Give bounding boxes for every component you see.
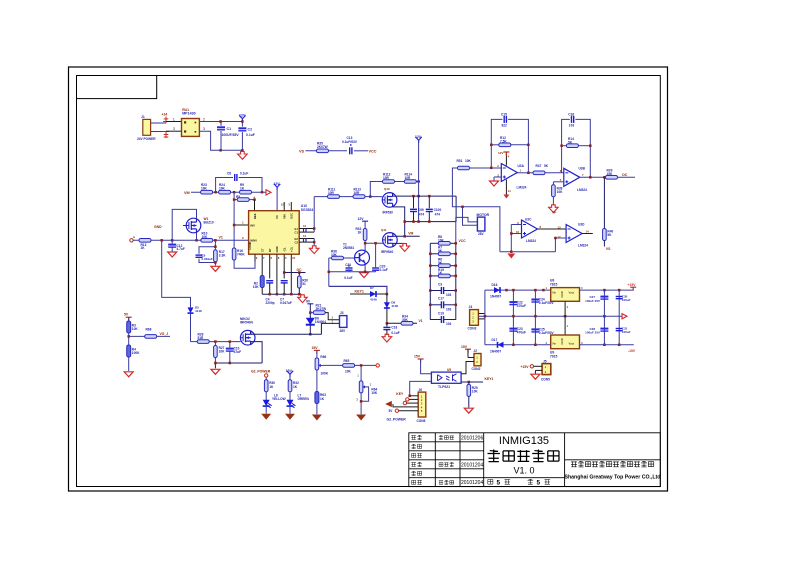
- svg-text:1K: 1K: [240, 186, 245, 190]
- wire terminals to U1: [166, 122, 182, 132]
- resistor R17 3.3K: [214, 250, 218, 262]
- svg-text:GND: GND: [275, 246, 279, 252]
- svg-text:J1: J1: [141, 115, 145, 119]
- LED L6 yellow: [263, 400, 272, 408]
- svg-text:GREEN: GREEN: [298, 397, 310, 401]
- svg-text:J4: J4: [469, 305, 473, 309]
- svg-text:15: 15: [281, 203, 285, 207]
- R36 left node vertical: [329, 258, 332, 286]
- resistor R38 10K: [552, 185, 556, 197]
- svg-text:C16: C16: [568, 112, 574, 116]
- table label row 5: [411, 471, 421, 476]
- svg-text:U5: U5: [447, 368, 451, 372]
- svg-text:REF: REF: [253, 213, 257, 219]
- resistor R30 1K: [264, 380, 268, 392]
- svg-text:14: 14: [586, 229, 590, 233]
- svg-text:C100: C100: [434, 208, 442, 212]
- svg-text:7.5K: 7.5K: [500, 139, 507, 143]
- mosfet Q10 IRF530: [382, 193, 397, 208]
- svg-text:0.1uF: 0.1uF: [240, 172, 248, 176]
- junction A: [214, 191, 217, 194]
- cap C24 0.1uF/50V: [534, 290, 536, 316]
- designer name row1: [439, 435, 454, 439]
- pin3 wire + ground: [494, 177, 501, 181]
- svg-text:MOTOR: MOTOR: [477, 213, 490, 217]
- drain wire right to J3 column: [251, 331, 322, 334]
- cap C27 100uF/25V: [603, 290, 605, 316]
- svg-text:10K: 10K: [132, 327, 139, 331]
- wire from motor sense up to R51: [452, 168, 500, 252]
- capacitor C100 474: [428, 196, 430, 208]
- svg-text:5K: 5K: [438, 249, 443, 253]
- ground under R63: [312, 415, 322, 421]
- svg-text:10K: 10K: [331, 253, 338, 257]
- svg-text:10K: 10K: [557, 190, 564, 194]
- bottom rail: [215, 363, 262, 368]
- T1 collector wire: [364, 243, 366, 250]
- svg-text:MP1430: MP1430: [182, 112, 195, 116]
- table label row 2: [411, 444, 421, 449]
- svg-text:+24: +24: [162, 113, 168, 117]
- svg-text:0.1uF: 0.1uF: [344, 276, 352, 280]
- op-amp U3B LM324: [564, 168, 580, 186]
- svg-text:1K: 1K: [141, 246, 146, 250]
- svg-text:CON2: CON2: [472, 367, 481, 371]
- wire R51 to pin2: [470, 167, 502, 169]
- approver name row6: [439, 480, 454, 484]
- inner border frame: [77, 76, 661, 487]
- terminal A input: [130, 239, 133, 242]
- svg-text:12: 12: [303, 224, 307, 228]
- terminal +: [163, 117, 169, 124]
- svg-text:-CL: -CL: [282, 247, 286, 252]
- svg-text:1N4004: 1N4004: [315, 320, 326, 324]
- svg-text:GND: GND: [560, 338, 564, 344]
- svg-text:R66: R66: [320, 355, 326, 359]
- 12V power bar: [239, 114, 246, 122]
- right pins 12 13 wires: [299, 229, 314, 243]
- top stubs pins: [283, 202, 285, 211]
- svg-text:+CL: +CL: [289, 246, 293, 252]
- wire to V1 with R34: [387, 322, 417, 324]
- wire VM row: [191, 191, 266, 193]
- capacitor C16 103: [572, 116, 574, 123]
- C9 - R17 network: [199, 240, 215, 262]
- output to U3D: [538, 228, 567, 230]
- resistor R29 10K: [468, 382, 470, 385]
- svg-text:10R: 10R: [383, 176, 390, 180]
- svg-text:9V: 9V: [306, 300, 311, 304]
- gate wire to Q11: [365, 242, 383, 244]
- resistor R9 1K: [240, 190, 252, 194]
- svg-text:GND: GND: [154, 225, 162, 229]
- svg-text:47uF: 47uF: [234, 350, 241, 354]
- svg-text:5K: 5K: [544, 164, 549, 168]
- resistor R27 10K: [214, 342, 216, 346]
- svg-text:7815: 7815: [550, 282, 558, 286]
- svg-text:10K: 10K: [201, 186, 208, 190]
- svg-text:0.1uF: 0.1uF: [380, 268, 388, 272]
- cap C23 470uF: [512, 316, 514, 345]
- pin4 wire to arrow: [393, 404, 418, 407]
- svg-text:Vout: Vout: [569, 342, 575, 346]
- ground under pot: [356, 415, 366, 421]
- capacitor C13 0.1uF/63V: [350, 147, 352, 154]
- title 送丝电路图: [488, 450, 559, 462]
- svg-text:IRF9540: IRF9540: [381, 250, 393, 254]
- svg-text:+15V: +15V: [628, 283, 637, 287]
- lower rail y=221.6: [405, 196, 456, 236]
- svg-text:U3D: U3D: [578, 222, 585, 226]
- resistor R24 10K: [219, 190, 231, 194]
- resistor R28 51R: [197, 340, 209, 344]
- svg-text:D16: D16: [492, 283, 498, 287]
- svg-text:1: 1: [173, 117, 175, 121]
- connector CON2: [474, 354, 481, 366]
- svg-text:VM: VM: [184, 191, 190, 195]
- svg-text:G2_POWER: G2_POWER: [387, 418, 407, 422]
- svg-text:VCC: VCC: [369, 149, 377, 153]
- svg-text:J3: J3: [340, 311, 344, 315]
- svg-text:OSC: OSC: [289, 213, 293, 219]
- ground under R17: [211, 266, 220, 271]
- svg-text:LM324: LM324: [578, 244, 588, 248]
- capacitor C4 2200p: [266, 281, 273, 283]
- LED L7 green: [287, 400, 296, 408]
- ground: [531, 374, 540, 379]
- svg-text:100UF/35V: 100UF/35V: [222, 133, 240, 137]
- svg-text:0.047uF: 0.047uF: [280, 301, 292, 305]
- svg-text:C18: C18: [391, 326, 397, 330]
- T1 emitter rail: [329, 271, 376, 273]
- terminal: [376, 364, 379, 367]
- junction: [160, 239, 163, 242]
- pin5 wire to R38 ground: [553, 182, 563, 185]
- table label row 6: [412, 480, 422, 484]
- W1 loop wire: [172, 209, 196, 240]
- wire J1 to terminals: [151, 123, 166, 132]
- upper row wire y=181.5: [370, 182, 418, 197]
- capacitor C14 103: [430, 290, 456, 292]
- svg-text:5K: 5K: [607, 233, 612, 237]
- wire B main line: [133, 239, 249, 241]
- capacitor C2 0.1uF: [238, 122, 254, 151]
- ground arrow under C18: [382, 334, 392, 342]
- svg-text:103: 103: [569, 124, 575, 128]
- left vertical: [484, 290, 486, 345]
- resistor R3 10K: [127, 321, 131, 333]
- svg-text:103: 103: [446, 293, 452, 297]
- svg-text:Q10: Q10: [384, 187, 390, 191]
- svg-text:COMP: COMP: [248, 241, 252, 250]
- svg-text:10R: 10R: [328, 191, 335, 195]
- svg-text:KEY1: KEY1: [485, 377, 494, 381]
- cap C22 470uF: [512, 290, 514, 316]
- svg-text:28V: 28V: [478, 232, 485, 236]
- svg-text:103: 103: [446, 307, 452, 311]
- resistor R19: [430, 275, 456, 277]
- resistor R32 1K: [288, 380, 292, 392]
- opto pin4 up to CON2 pin2: [461, 362, 474, 374]
- regulator U9 7915: [551, 335, 580, 349]
- motor M1: [477, 217, 485, 231]
- svg-text:Q11: Q11: [381, 228, 387, 232]
- svg-text:24V POWER: 24V POWER: [137, 137, 156, 141]
- svg-text:YELLOW: YELLOW: [272, 397, 286, 401]
- svg-text:SG3524: SG3524: [301, 208, 314, 212]
- wire to VG with R68: [129, 335, 170, 337]
- svg-text:J2: J2: [474, 349, 478, 353]
- svg-text:100uF 25V: 100uF 25V: [585, 331, 600, 335]
- riser pin12 to gate line: [313, 197, 315, 233]
- opto pin2 to KEY junction: [410, 381, 432, 395]
- resistor R5 56K row to pin4: [234, 192, 254, 248]
- svg-text:BUZ10: BUZ10: [204, 220, 214, 224]
- opto pin3 to R29 and KEY1: [461, 381, 483, 383]
- junction dots power block: [219, 120, 222, 123]
- table label row 3: [412, 453, 422, 457]
- svg-text:CON6: CON6: [417, 419, 426, 423]
- svg-text:0.1uF: 0.1uF: [246, 133, 255, 137]
- resistor R12 7.5K: [499, 143, 511, 147]
- junction B: [233, 191, 236, 194]
- source loop to ground rail: [251, 342, 262, 363]
- svg-text:LM324: LM324: [517, 186, 527, 190]
- svg-text:2K07W: 2K07W: [317, 145, 328, 149]
- capacitor C12 4.7uF: [171, 240, 173, 243]
- svg-text:C17: C17: [438, 297, 444, 301]
- svg-text:R68: R68: [146, 327, 152, 331]
- svg-text:V1: V1: [219, 236, 223, 240]
- svg-text:CON3: CON3: [468, 327, 477, 331]
- vertical to R40 / VS: [603, 177, 605, 228]
- output stub: [582, 233, 593, 235]
- vertical to pot R64: [360, 365, 362, 381]
- wire U1 pin2 to 12V rail: [199, 121, 242, 123]
- resistor R111 10R: [328, 195, 340, 199]
- resistor R33 1K: [363, 229, 367, 241]
- input wires: [511, 225, 521, 252]
- resistor R8: [430, 242, 456, 244]
- ground under R29: [464, 408, 473, 413]
- svg-text:100uF: 100uF: [622, 330, 631, 334]
- svg-text:OC: OC: [622, 173, 628, 177]
- pin2 terminal: [406, 398, 409, 401]
- svg-text:RT: RT: [268, 248, 272, 252]
- capacitor C21 0.1uF: [348, 264, 350, 267]
- wire R16 to pin bottom-left: [234, 254, 255, 268]
- bottom rail: [262, 293, 301, 295]
- ladder junction dots: [429, 253, 432, 256]
- svg-text:U3A: U3A: [518, 164, 525, 168]
- power pin 11: [505, 180, 507, 195]
- capacitor C1 100uF/35V: [217, 122, 239, 151]
- svg-text:C99: C99: [418, 208, 424, 212]
- svg-text:2200p: 2200p: [266, 301, 275, 305]
- cap C28 100uF/25V: [603, 316, 605, 345]
- svg-text:10K: 10K: [438, 238, 445, 242]
- op-amp U3D LM324: [566, 225, 582, 243]
- diode D16 1N4007: [485, 289, 551, 291]
- input resistor R51 10K: [458, 166, 470, 170]
- svg-text:CON5: CON5: [541, 378, 550, 382]
- ladder verticals: [430, 243, 456, 319]
- svg-text:4148: 4148: [370, 297, 377, 301]
- svg-text:103: 103: [446, 322, 452, 326]
- resistor R21 2K07W: [310, 312, 313, 314]
- outer border frame: [69, 67, 668, 491]
- resistor R112 10R: [383, 180, 395, 184]
- red arrow net marker: [266, 190, 271, 195]
- ground: [124, 372, 133, 377]
- svg-text:A: A: [133, 235, 135, 239]
- svg-text:15K: 15K: [607, 172, 614, 176]
- svg-text:10K: 10K: [371, 391, 378, 395]
- svg-text:VC: VC: [275, 215, 279, 219]
- svg-text:822: 822: [502, 124, 508, 128]
- svg-text:1K: 1K: [358, 230, 363, 234]
- regulator U8 7815: [551, 288, 580, 302]
- svg-text:100K: 100K: [320, 372, 328, 376]
- svg-text:15V: 15V: [312, 346, 319, 350]
- svg-text:10R: 10R: [354, 191, 361, 195]
- ground under C12: [168, 252, 177, 257]
- mid GND rail: [478, 315, 621, 317]
- svg-text:TLP521: TLP521: [438, 385, 450, 389]
- svg-text:0.049uF: 0.049uF: [202, 257, 213, 261]
- svg-text:2: 2: [203, 117, 205, 121]
- svg-text:1N4007: 1N4007: [490, 349, 501, 353]
- capacitor C10 47uF: [229, 342, 231, 348]
- mosfet W2 IRF540N: [240, 330, 255, 345]
- svg-text:1K: 1K: [438, 271, 443, 275]
- resistor R65 10K: [343, 364, 355, 368]
- resistor R113 10R: [353, 195, 365, 199]
- svg-text:10K: 10K: [465, 159, 472, 163]
- transistor T1 2N5551: [355, 250, 370, 265]
- wire U1 pin3 bottom: [199, 131, 242, 150]
- cap C30 104: [618, 290, 620, 316]
- svg-text:4148: 4148: [195, 309, 202, 313]
- resistor R4 100K: [127, 345, 131, 357]
- resistor R7: [430, 253, 456, 255]
- svg-text:VIN: VIN: [282, 214, 286, 219]
- svg-text:474: 474: [435, 212, 441, 216]
- svg-text:13: 13: [557, 225, 561, 229]
- resistor R39 15K: [606, 176, 618, 180]
- capacitor C7 0.047uF: [281, 281, 288, 283]
- svg-text:1N4007: 1N4007: [490, 295, 501, 299]
- ground for pins 11/14: [313, 239, 315, 246]
- resistor R14 5K: [566, 144, 578, 148]
- svg-text:12V: 12V: [415, 135, 422, 139]
- ground arrow at rail end: [298, 295, 308, 303]
- svg-text:2N5551: 2N5551: [343, 246, 354, 250]
- capacitor C9: [196, 255, 203, 257]
- svg-text:0.1uF/50V: 0.1uF/50V: [539, 301, 555, 305]
- svg-text:VG_J: VG_J: [160, 332, 169, 336]
- svg-text:D17: D17: [492, 338, 498, 342]
- svg-text:470uF: 470uF: [517, 304, 526, 308]
- svg-text:KEY1: KEY1: [355, 290, 364, 294]
- T1 emitter to ground: [364, 265, 366, 272]
- resistor R35: [317, 149, 329, 153]
- svg-text:C1: C1: [227, 127, 232, 131]
- svg-text:IRF540N: IRF540N: [240, 320, 253, 324]
- svg-text:LM324: LM324: [577, 188, 587, 192]
- resistor R10 10K: [201, 239, 213, 243]
- svg-text:3.3K: 3.3K: [219, 253, 226, 257]
- capacitor C99 474: [413, 196, 415, 208]
- wire VS to VCC: [306, 150, 369, 152]
- svg-text:V1: V1: [419, 319, 423, 323]
- svg-text:R65: R65: [344, 359, 350, 363]
- svg-text:C2: C2: [295, 240, 299, 244]
- table label row 1: [411, 435, 422, 440]
- svg-text:C19: C19: [438, 311, 444, 315]
- svg-text:1K: 1K: [269, 385, 274, 389]
- connector CON3: [470, 310, 479, 326]
- resistor R40 5K: [603, 229, 607, 241]
- capacitor C17 103: [430, 304, 456, 306]
- capacitor C6: [304, 239, 307, 243]
- svg-text:20101204: 20101204: [461, 462, 483, 468]
- bottom rail + diode D17: [485, 344, 634, 346]
- regulator module U1 MP1430: [182, 108, 200, 137]
- svg-text:R51: R51: [457, 159, 463, 163]
- pin1 KEY wire: [410, 395, 419, 397]
- zener D6 1N4004: [306, 318, 315, 325]
- resistor R6: [430, 265, 456, 267]
- svg-text:INV: INV: [250, 224, 255, 228]
- svg-text:10K: 10K: [253, 285, 260, 289]
- svg-text:15V: 15V: [461, 345, 468, 349]
- page numbering 第5页 共5页: [488, 480, 493, 485]
- svg-text:LM324: LM324: [526, 239, 536, 243]
- svg-text:0.1uF: 0.1uF: [391, 331, 399, 335]
- svg-text:0.1uF/63V: 0.1uF/63V: [342, 140, 358, 144]
- svg-text:5V: 5V: [124, 312, 129, 316]
- cap C25 0.1uF/50V: [534, 316, 536, 345]
- svg-text:13: 13: [303, 234, 307, 238]
- svg-text:Shanghai Greatway Top Power CO: Shanghai Greatway Top Power CO.,Ltd: [565, 475, 661, 481]
- svg-text:12V: 12V: [498, 151, 503, 155]
- capacitor C20 0.1uF: [375, 243, 377, 267]
- pin5 terminal 5V: [395, 409, 398, 412]
- svg-text:Vin: Vin: [552, 291, 556, 295]
- resistor R2 10K: [260, 276, 264, 288]
- svg-text:U3C: U3C: [525, 217, 532, 221]
- svg-text:R37: R37: [536, 164, 542, 168]
- svg-text:CT: CT: [260, 248, 264, 252]
- ground arrow under R38: [549, 205, 559, 213]
- pin 1 wire from junction: [234, 224, 249, 226]
- svg-text:100uF: 100uF: [622, 298, 631, 302]
- svg-text:100uF 25V: 100uF 25V: [585, 299, 600, 303]
- svg-text:100K: 100K: [132, 351, 140, 355]
- svg-text:-15V: -15V: [628, 349, 636, 353]
- table label row 4: [411, 462, 422, 467]
- wire to W2 gate: [191, 341, 241, 343]
- resistor R37: [533, 171, 545, 175]
- svg-text:+15V: +15V: [521, 365, 530, 369]
- op-amp U3A LM324: [501, 164, 517, 182]
- svg-text:VF: VF: [552, 211, 556, 215]
- diode D8 4148 vertical: [386, 294, 388, 323]
- svg-text:4.7uF: 4.7uF: [177, 247, 185, 251]
- diode D7 4148: [350, 293, 387, 295]
- 12V power drop: [415, 137, 421, 143]
